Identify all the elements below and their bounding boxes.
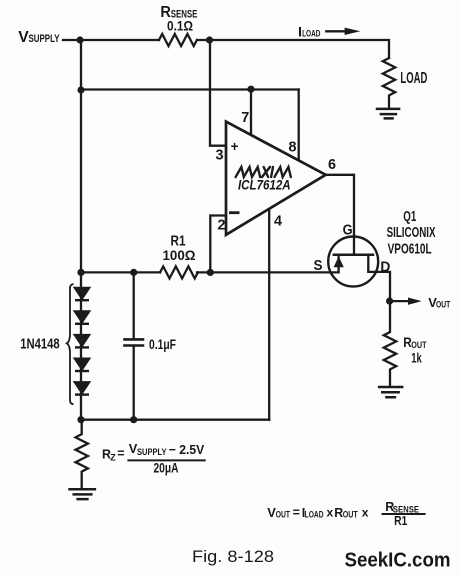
wire sense node to pin 3: [210, 40, 226, 146]
svg-text:=: =: [293, 506, 300, 520]
svg-text:100Ω: 100Ω: [163, 247, 196, 263]
svg-text:8: 8: [289, 140, 297, 156]
op-amp U1 triangle: [226, 122, 326, 235]
resistor R1: [160, 266, 198, 278]
wire VSUPPLY to RSENSE: [63, 39, 159, 41]
capacitor C1 lead top: [133, 272, 135, 338]
arrow ILOAD: [325, 30, 345, 32]
svg-text:SUPPLY: SUPPLY: [137, 447, 167, 458]
formula fraction bar: [382, 513, 426, 515]
formula RZ fraction bar: [127, 459, 205, 461]
svg-text:OUT: OUT: [343, 509, 358, 519]
svg-text:OUT: OUT: [276, 509, 291, 519]
svg-text:ICL7612A: ICL7612A: [238, 177, 291, 193]
diode D4: [75, 359, 89, 370]
diode D3: [75, 335, 89, 346]
wire R1 rail to MOSFET source: [81, 271, 339, 273]
diode D2: [75, 312, 89, 323]
wire supply rail to op-amp pins 7 and 8: [81, 88, 299, 90]
svg-text:Z: Z: [110, 453, 116, 464]
transistor Q1 body circle: [328, 237, 378, 287]
capacitor C1 plates: [125, 339, 144, 345]
svg-text:Fig. 8-128: Fig. 8-128: [192, 548, 274, 566]
wire bottom rail: [81, 419, 269, 421]
arrow VOUT: [392, 300, 409, 302]
transistor Q1 source arrow: [334, 256, 344, 267]
MAXIM logo: [236, 167, 291, 177]
svg-text:LOAD: LOAD: [305, 509, 324, 519]
capacitor C1 lead bottom: [133, 347, 135, 420]
svg-text:OUT: OUT: [436, 300, 451, 310]
ground (RZ): [70, 489, 95, 499]
wire pin 8: [298, 90, 300, 161]
svg-text:− 2.5V: − 2.5V: [169, 442, 205, 457]
svg-text:6: 6: [328, 157, 336, 173]
diode chain D1-D5 1N4148: [75, 288, 89, 395]
wire RSENSE to LOAD corner: [197, 40, 389, 58]
junction dot capacitor bottom: [130, 416, 137, 423]
junction dot rail R1 wire: [77, 269, 84, 276]
wire VOUT node to ROUT and ground: [384, 301, 396, 387]
resistor RZ: [76, 420, 88, 489]
junction dot supply rail top: [76, 36, 83, 43]
wire pin 6 to gate: [326, 175, 354, 254]
svg-text:SeekIC.com: SeekIC.com: [345, 549, 451, 572]
svg-text:1N4148: 1N4148: [20, 337, 60, 353]
junction dot RSENSE right: [206, 36, 213, 43]
junction dot VOUT node: [386, 298, 393, 305]
svg-text:3: 3: [216, 147, 224, 163]
svg-text:0.1μF: 0.1μF: [149, 336, 176, 352]
wire pin 4 to bottom rail: [268, 209, 270, 420]
svg-text:LOAD: LOAD: [302, 28, 320, 39]
wire drain to VOUT node: [368, 272, 390, 301]
ground (LOAD): [377, 109, 399, 119]
junction dot rail bottom: [77, 416, 84, 423]
svg-text:R1: R1: [394, 513, 407, 528]
svg-text:20μA: 20μA: [154, 459, 179, 475]
wire pin 2 to R1 node: [210, 216, 226, 273]
svg-text:1k: 1k: [411, 349, 422, 365]
diode D1: [75, 288, 89, 299]
diode D5: [75, 382, 89, 393]
svg-text:SILICONIX: SILICONIX: [387, 225, 436, 241]
svg-text:0.1Ω: 0.1Ω: [167, 18, 193, 33]
op-amp minus input: [229, 211, 240, 214]
svg-text:G: G: [343, 223, 353, 239]
svg-text:D: D: [380, 260, 390, 276]
svg-text:S: S: [314, 258, 323, 274]
junction dot rail pin7 wire: [77, 86, 84, 93]
svg-text:SUPPLY: SUPPLY: [29, 33, 60, 45]
transistor Q1 channel bar: [333, 254, 375, 257]
junction dot pin 7 tap: [247, 86, 254, 93]
junction dot capacitor top: [130, 269, 137, 276]
svg-text:7: 7: [241, 110, 249, 126]
svg-text:2: 2: [218, 217, 226, 233]
transistor Q1 drain stub: [367, 255, 369, 272]
svg-text:VPO610L: VPO610L: [388, 242, 432, 258]
transistor Q1 source stub: [337, 255, 339, 272]
brace for 1N4148: [67, 284, 74, 404]
svg-text:+: +: [231, 139, 239, 154]
svg-text:x: x: [362, 506, 369, 520]
wire left supply rail: [80, 40, 82, 420]
svg-text:=: =: [117, 446, 124, 460]
svg-text:x: x: [327, 506, 334, 520]
junction dot pin 2 R1: [207, 269, 214, 276]
wire pin 7: [250, 90, 252, 135]
svg-text:LOAD: LOAD: [400, 70, 427, 87]
ground (ROUT): [379, 387, 402, 397]
svg-text:Q1: Q1: [403, 209, 416, 225]
resistor RSENSE: [159, 34, 197, 46]
svg-text:4: 4: [274, 213, 282, 229]
resistor LOAD: [383, 58, 395, 109]
